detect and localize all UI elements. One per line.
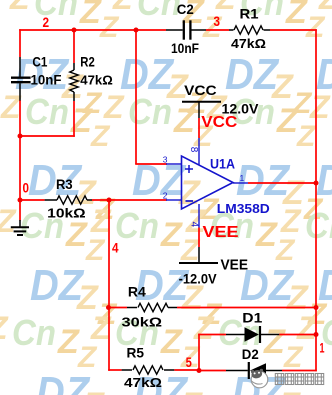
wire R1 to right vertical: [270, 29, 317, 31]
wire C1 bottom to node 0: [19, 100, 21, 221]
svg-text:Cn: Cn: [34, 0, 78, 23]
svg-text:Cn: Cn: [137, 0, 181, 23]
svg-text:R3: R3: [56, 176, 73, 192]
svg-text:2: 2: [163, 191, 168, 201]
wire node5 to D1: [198, 334, 226, 336]
junction net2 R2: [72, 28, 77, 33]
diode D2: [226, 362, 282, 379]
svg-text:8: 8: [188, 147, 199, 153]
wire op-amp output: [248, 182, 316, 184]
svg-text:Z: Z: [263, 323, 286, 361]
svg-text:VEE: VEE: [203, 224, 239, 241]
svg-text:Cn: Cn: [305, 205, 332, 246]
svg-text:Z: Z: [276, 102, 299, 140]
svg-text:R1: R1: [240, 6, 259, 22]
svg-text:DZ: DZ: [318, 261, 332, 310]
svg-text:Z: Z: [285, 0, 308, 31]
pin 8 stub: [198, 138, 200, 165]
wire net 3 C2 to R1: [206, 29, 229, 31]
svg-text:C1: C1: [32, 54, 47, 70]
svg-text:3: 3: [163, 155, 168, 165]
svg-text:-12.0V: -12.0V: [179, 271, 218, 287]
junction R4 net1: [314, 305, 319, 310]
resistor R3: [45, 196, 92, 204]
junction node 4 top: [107, 198, 112, 203]
svg-text:R5: R5: [127, 345, 145, 361]
svg-text:D1: D1: [242, 310, 262, 326]
svg-text:D2: D2: [242, 346, 259, 362]
wire VCC to pin 8: [198, 118, 200, 138]
svg-text:1: 1: [320, 339, 325, 355]
svg-text:Z: Z: [65, 216, 88, 254]
wire net 2 top horizontal: [19, 29, 166, 31]
svg-text:DZ: DZ: [30, 261, 85, 310]
svg-text:R4: R4: [128, 284, 146, 300]
svg-text:VCC: VCC: [184, 82, 217, 98]
junction D1 net1: [314, 332, 319, 337]
svg-text:Z: Z: [0, 89, 22, 125]
wire R5 to node 5: [174, 369, 200, 371]
resistor R1: [229, 26, 270, 34]
resistor R2: [70, 63, 78, 101]
wire R4 to right vertical: [177, 307, 316, 309]
svg-text:0: 0: [23, 180, 30, 196]
junction net2 pin3: [134, 28, 139, 33]
svg-text:Z: Z: [160, 216, 183, 254]
wire D2 to right vertical: [282, 370, 317, 372]
svg-text:Z: Z: [57, 323, 80, 361]
junction node4 R4: [106, 305, 111, 310]
svg-text:2: 2: [43, 14, 50, 30]
wire node 4 to R4: [108, 307, 127, 309]
svg-text:47kΩ: 47kΩ: [231, 36, 266, 51]
svg-text:U1A: U1A: [210, 155, 235, 171]
svg-text:Cn: Cn: [115, 205, 159, 246]
svg-text:Z: Z: [79, 0, 102, 31]
op-amp U1A triangle: [182, 156, 234, 209]
svg-text:Z: Z: [193, 310, 215, 346]
wire net 2 vertical to noninverting input: [135, 30, 137, 164]
svg-text:47kΩ: 47kΩ: [80, 73, 113, 88]
pin 3 stub: [166, 163, 182, 165]
svg-text:Z: Z: [255, 216, 278, 254]
svg-text:DZ: DZ: [236, 156, 291, 205]
svg-text:VEE: VEE: [221, 257, 249, 274]
wire R2 bottom vertical: [73, 101, 75, 137]
pin 4 stub: [198, 204, 200, 228]
svg-text:Z: Z: [9, 0, 31, 16]
svg-text:4: 4: [188, 222, 199, 228]
diode D1: [226, 326, 279, 343]
svg-text:Z: Z: [296, 310, 318, 346]
svg-text:1: 1: [240, 173, 245, 183]
svg-text:Z: Z: [280, 203, 302, 239]
wire net 1 right vertical: [315, 29, 317, 371]
svg-text:Cn: Cn: [25, 91, 69, 132]
svg-text:Z: Z: [112, 0, 134, 16]
wire node 0 to R3: [20, 199, 45, 201]
wire R2 top lead: [73, 30, 75, 63]
svg-text:4: 4: [112, 240, 119, 256]
svg-text:R2: R2: [80, 54, 95, 70]
wire VEE to pin 4: [198, 228, 200, 248]
capacitor C2: [166, 20, 206, 39]
svg-text:Z: Z: [309, 89, 331, 125]
wire node 4 vertical: [108, 200, 110, 371]
junction loop left: [18, 134, 23, 139]
svg-text:10nF: 10nF: [171, 40, 199, 56]
resistor R5: [122, 366, 175, 374]
resistor R4: [127, 303, 177, 311]
junction node 5: [197, 368, 202, 373]
svg-text:10kΩ: 10kΩ: [47, 206, 85, 221]
VEE power symbol: [179, 247, 218, 263]
wire into pin 3: [135, 163, 167, 165]
wire node 4 to R5: [108, 369, 121, 371]
svg-text:30kΩ: 30kΩ: [122, 315, 163, 330]
op-amp plus marker: [185, 165, 193, 173]
svg-text:LM358D: LM358D: [217, 201, 270, 216]
wire R3 to pin 2: [92, 199, 167, 201]
svg-text:Z: Z: [173, 102, 196, 140]
svg-text:DZ: DZ: [316, 156, 332, 205]
svg-text:10nF: 10nF: [31, 72, 62, 88]
ground symbol: [11, 220, 29, 235]
pin 2 stub: [166, 199, 182, 201]
svg-text:Z: Z: [103, 89, 125, 125]
pin 1 stub: [233, 182, 248, 184]
wire D1 to right vertical: [279, 334, 316, 336]
svg-text:Z: Z: [160, 323, 183, 361]
junction output net1: [314, 181, 319, 186]
wire node5 to D2: [199, 370, 226, 372]
svg-text:47kΩ: 47kΩ: [124, 375, 162, 390]
wire diode branch left vertical: [198, 334, 200, 371]
svg-text:Cn: Cn: [12, 312, 56, 353]
op-amp minus marker: [186, 200, 194, 202]
svg-text:3: 3: [214, 13, 221, 29]
capacitor C1: [11, 57, 31, 101]
VCC power symbol: [182, 102, 221, 118]
svg-text:Z: Z: [318, 0, 332, 16]
svg-text:5: 5: [186, 354, 192, 370]
svg-text:Z: Z: [0, 203, 17, 239]
svg-text:C2: C2: [177, 1, 194, 17]
svg-text:DZ: DZ: [240, 261, 295, 310]
svg-text:VCC: VCC: [201, 114, 237, 131]
svg-text:Cn: Cn: [128, 91, 172, 132]
wire C1 top lead vertical: [19, 29, 21, 57]
junction node 0: [18, 198, 23, 203]
wire loop bottom horizontal: [19, 135, 75, 137]
